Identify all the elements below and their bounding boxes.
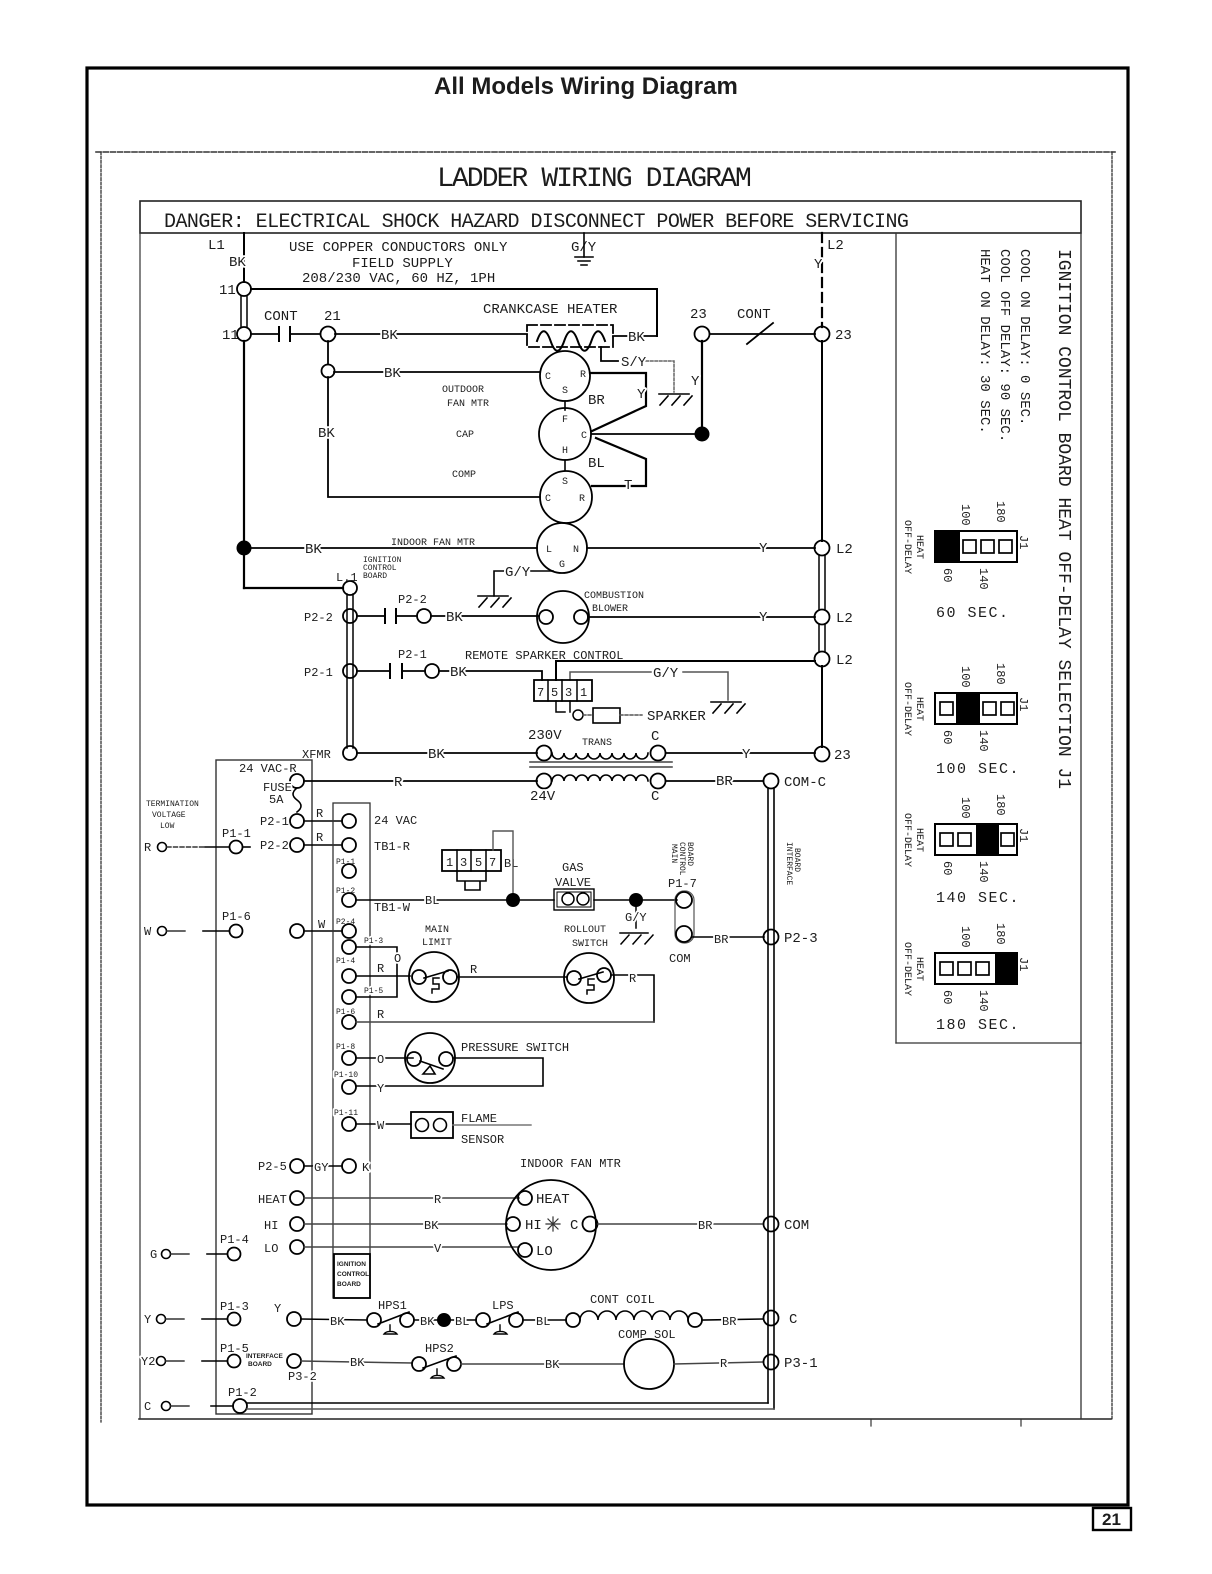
DIP switch S2 white positions [940,702,953,715]
svg-text:P1-1: P1-1 [222,827,251,841]
svg-text:BK: BK [381,328,398,344]
junction dot indoor fan [237,541,252,556]
connector plug body [457,871,486,890]
svg-text:60: 60 [940,568,954,582]
wire sparker pin5 to L2 [556,661,815,680]
svg-text:Y: Y [637,387,646,403]
svg-text:100: 100 [958,504,972,526]
svg-text:OFF-DELAY: OFF-DELAY [901,813,912,867]
svg-text:PRESSURE SWITCH: PRESSURE SWITCH [461,1041,569,1055]
wire TB1-W BL to gas valve [356,899,554,901]
inner frame bottom [139,1418,1112,1420]
svg-text:24 VAC: 24 VAC [374,814,417,828]
svg-text:5: 5 [551,686,558,700]
flame sensor [411,1112,453,1138]
svg-text:O: O [377,1053,384,1067]
right panel bottom edge [896,1042,1081,1044]
svg-text:LOW: LOW [160,822,175,831]
svg-text:BL: BL [425,894,439,908]
svg-text:140 SEC.: 140 SEC. [936,890,1020,907]
wire BK to dot [414,1319,437,1321]
svg-text:140: 140 [976,730,990,752]
svg-text:21: 21 [324,309,341,325]
svg-text:All Models Wiring Diagram: All Models Wiring Diagram [434,73,738,100]
svg-text:COOL ON DELAY: 0 SEC.: COOL ON DELAY: 0 SEC. [1016,249,1032,425]
svg-text:P1-11: P1-11 [334,1109,358,1118]
wire BK to transformer [357,752,537,754]
svg-text:CAP: CAP [456,430,474,441]
node P3-2 [287,1354,301,1368]
svg-text:W: W [377,1119,385,1133]
svg-text:23: 23 [834,748,851,764]
svg-text:MAIN: MAIN [669,844,678,863]
ICB strip double line [346,594,348,748]
svg-text:HEAT: HEAT [913,957,924,981]
ground top [575,257,593,265]
svg-text:BL: BL [504,857,518,871]
svg-text:R: R [629,972,636,986]
wire BK to indoor fan [251,547,537,549]
svg-text:COM-C: COM-C [784,775,826,791]
wire 21 drop [327,341,329,364]
wire R to motor HEAT [304,1197,519,1199]
svg-text:K: K [362,1161,370,1175]
svg-text:INTERFACE: INTERFACE [246,1353,284,1360]
wire 7 jumper over to BL line [493,831,513,893]
svg-text:P1-7: P1-7 [668,877,697,891]
svg-text:BL: BL [536,1315,550,1329]
svg-text:H: H [562,446,568,457]
page number box [1093,1508,1131,1530]
svg-text:P3-2: P3-2 [288,1370,317,1384]
ground fan G [478,596,511,607]
node COM [764,1217,779,1232]
svg-text:21: 21 [1102,1510,1121,1529]
wire BK to HPS1 [301,1319,366,1320]
svg-text:HEAT: HEAT [913,535,924,559]
svg-text:HEAT ON DELAY: 30 SEC.: HEAT ON DELAY: 30 SEC. [976,249,992,434]
DIP switch S3 white positions [940,833,953,846]
node TB1-R [342,838,356,852]
svg-text:P2-2: P2-2 [398,593,427,607]
node P2-3 [764,930,779,945]
svg-text:J1: J1 [1016,957,1030,971]
svg-text:C: C [570,1218,578,1234]
svg-text:W: W [144,925,152,939]
svg-text:COOL OFF DELAY: 90 SEC.: COOL OFF DELAY: 90 SEC. [996,249,1012,442]
svg-text:24V: 24V [530,789,556,805]
wire BL to LPS [451,1319,476,1321]
node P3-1 [764,1355,779,1370]
connector 1357 [442,850,501,871]
DIP switch S2 rocker position 100 (black) [956,693,980,724]
svg-text:5: 5 [475,856,482,870]
svg-text:BLOWER: BLOWER [592,604,628,615]
svg-text:BK: BK [446,610,463,626]
svg-text:V: V [434,1242,442,1256]
junction dot G/Y [629,893,643,907]
svg-text:7: 7 [537,686,544,700]
svg-text:BL: BL [588,456,605,472]
svg-text:60: 60 [940,990,954,1004]
DIP switch S1 white positions [963,540,976,553]
svg-text:CRANKCASE HEATER: CRANKCASE HEATER [483,302,618,318]
svg-text:TRANS: TRANS [582,738,612,749]
svg-text:BOARD: BOARD [337,1281,361,1288]
wire Y from node 23 left [701,341,703,428]
svg-text:208/230 VAC, 60 HZ, 1PH: 208/230 VAC, 60 HZ, 1PH [302,271,495,287]
svg-text:FAN MTR: FAN MTR [447,399,489,410]
svg-text:HEAT: HEAT [913,828,924,852]
DIP switch S2 body [935,693,1017,724]
ignition control board black box label [334,1254,370,1298]
wire top bus [251,289,657,336]
wire heater out BK [613,335,657,337]
svg-text:BOARD: BOARD [363,572,387,581]
common rail double line [767,788,769,1403]
svg-text:OFF-DELAY: OFF-DELAY [901,682,912,736]
junction dot C [695,427,710,442]
left rail L1 down [243,341,245,588]
svg-text:GY: GY [314,1161,328,1175]
svg-text:BK: BK [318,426,335,442]
svg-text:P1-5: P1-5 [364,987,383,996]
node TB1 P1-5 [342,990,356,1004]
svg-text:CONT COIL: CONT COIL [590,1293,655,1307]
svg-text:LIMIT: LIMIT [422,938,452,949]
svg-text:BOARD: BOARD [792,848,801,872]
wire V to motor LO [304,1246,519,1248]
svg-text:140: 140 [976,990,990,1012]
wire main limit to rollout [457,976,566,978]
svg-text:P2-1: P2-1 [304,666,333,680]
danger warning box [140,201,1081,233]
svg-text:23: 23 [835,328,852,344]
svg-text:Y: Y [691,374,700,390]
svg-text:IGNITION: IGNITION [337,1261,366,1268]
svg-text:OFF-DELAY: OFF-DELAY [901,520,912,574]
svg-text:P1-2: P1-2 [228,1386,257,1400]
svg-text:COM: COM [784,1218,809,1234]
junction dot HPS1/LPS [437,1313,451,1327]
wire BK to sparker plug [439,671,542,680]
wire heater case S/Y to ground [601,347,618,361]
node L2 row2 [815,610,830,625]
wire blower to L2 [588,616,815,618]
TB1 strip box [333,803,370,1298]
svg-text:FIELD SUPPLY: FIELD SUPPLY [352,256,453,272]
wire G/Y pin3 to ground [570,672,728,700]
svg-text:LPS: LPS [492,1299,514,1313]
svg-text:R: R [316,807,323,821]
svg-text:140: 140 [976,861,990,883]
flame rod wire [453,1124,531,1126]
wire COM BR to P2-3 [692,936,764,938]
wire BK to outdoor fan C [334,371,539,373]
svg-text:MAIN: MAIN [425,925,449,936]
svg-text:BK: BK [450,665,467,681]
svg-text:P2-1: P2-1 [260,815,289,829]
wire P1-11 W to flame sensor [356,1123,411,1125]
svg-text:60: 60 [940,861,954,875]
combustion blower [537,591,589,643]
bracket P1-3/P1-5 jumper [356,947,397,997]
wire fuse to 24V [304,780,537,782]
svg-text:R: R [377,1008,384,1022]
svg-text:SWITCH: SWITCH [572,939,608,950]
svg-text:BK: BK [545,1358,560,1372]
svg-text:L2: L2 [827,238,844,254]
wire L2 drop dashed [821,233,823,327]
svg-text:HI: HI [525,1218,542,1234]
indoor fan motor speeds [506,1180,596,1270]
svg-text:ROLLOUT: ROLLOUT [564,925,606,936]
svg-text:INDOOR FAN MTR: INDOOR FAN MTR [391,538,475,549]
node P2-2b [417,609,431,623]
svg-text:L2: L2 [836,611,853,627]
svg-text:G/Y: G/Y [625,911,647,925]
svg-text:11: 11 [222,328,239,344]
svg-text:TB1-R: TB1-R [374,840,410,854]
wire cap H to comp S [564,460,566,470]
svg-text:DANGER: ELECTRICAL SHOCK HAZAR: DANGER: ELECTRICAL SHOCK HAZARD DISCONNE… [164,211,908,234]
svg-text:BK: BK [420,1315,435,1329]
svg-text:L2: L2 [836,542,853,558]
wire BK down to comp [328,377,540,497]
svg-text:BR: BR [714,933,728,947]
svg-text:SPARKER: SPARKER [647,709,706,725]
svg-text:BK: BK [330,1315,345,1329]
wire cap C to Y junction dot [592,433,702,435]
svg-text:180: 180 [993,663,1007,685]
svg-text:HI: HI [264,1219,278,1233]
svg-text:CONT: CONT [737,307,771,323]
svg-text:P2-5: P2-5 [258,1160,287,1174]
DIP switch S1 rocker position 60 (black) [935,531,960,562]
svg-text:G: G [150,1248,157,1262]
fuse terminal [290,774,304,788]
svg-text:C: C [789,1312,797,1328]
wire secondary to COM-C [666,780,763,782]
ladder / panel divider [895,233,897,1043]
svg-text:BK: BK [628,330,645,346]
capacitor CAP [539,408,591,460]
svg-text:G/Y: G/Y [653,666,679,682]
svg-text:S: S [562,386,568,397]
svg-text:GAS: GAS [562,861,584,875]
svg-text:BK: BK [305,542,322,558]
wire fan G to ground [494,571,553,596]
svg-text:HPS2: HPS2 [425,1342,454,1356]
svg-text:BR: BR [588,393,605,409]
wire P2-1 to TB1 [304,820,342,822]
svg-text:COMP: COMP [452,470,476,481]
svg-text:P1-10: P1-10 [334,1071,358,1080]
wire R to P3-1 [674,1362,763,1364]
svg-text:Y: Y [742,747,751,763]
wire BK to motor HI [304,1223,507,1225]
svg-text:CONTROL: CONTROL [337,1271,369,1278]
wire gas valve to P1-7 [594,899,677,901]
svg-text:OFF-DELAY: OFF-DELAY [901,942,912,996]
svg-text:100: 100 [958,666,972,688]
svg-text:TERMINATION: TERMINATION [146,800,199,809]
ground sparker [711,702,745,713]
wire P1-8 O to pressure switch [356,1057,413,1059]
svg-text:180: 180 [993,501,1007,523]
svg-text:HEAT: HEAT [913,697,924,721]
svg-text:FLAME: FLAME [461,1112,497,1126]
svg-text:COM: COM [669,952,691,966]
rail L2 row3 to 23 [821,666,823,747]
svg-text:C: C [144,1400,151,1414]
svg-text:BK: BK [229,255,246,271]
wire P1-4 R to main limit [356,975,410,977]
inner dotted frame left [100,152,102,1422]
transformer primary [537,746,552,761]
svg-text:USE COPPER CONDUCTORS ONLY: USE COPPER CONDUCTORS ONLY [289,240,508,256]
wire BK to HPS2 [301,1361,412,1363]
dashed separator line [96,151,1115,153]
interface board box [216,760,312,1414]
svg-text:R: R [720,1357,727,1371]
svg-text:5A: 5A [269,793,284,807]
node L2 row1 [815,541,830,556]
node TB1 24VAC [342,814,356,828]
svg-text:L: L [546,545,552,556]
fold tick marks [870,1419,872,1426]
svg-text:R: R [579,494,585,505]
svg-text:C: C [651,789,659,805]
svg-text:P2-2: P2-2 [304,611,333,625]
svg-text:Y: Y [274,1302,281,1316]
svg-text:BK: BK [384,366,401,382]
svg-text:L2: L2 [836,653,853,669]
svg-text:CONT: CONT [264,309,298,325]
node C rail [764,1311,779,1326]
svg-text:60: 60 [940,730,954,744]
svg-text:LADDER WIRING DIAGRAM: LADDER WIRING DIAGRAM [437,164,751,195]
ground S/Y [659,394,692,405]
svg-text:Y: Y [377,1082,384,1096]
indoor fan motor L/N/G [537,523,587,573]
wire motor C BR to COM [598,1223,762,1225]
svg-text:C: C [581,431,587,442]
svg-text:BK: BK [428,747,445,763]
svg-text:J1: J1 [1016,828,1030,842]
outer page frame [87,68,1128,1505]
node 23 transformer [815,747,830,762]
rail L2 row1-row2 double [818,555,820,610]
svg-text:S/Y: S/Y [621,355,647,371]
svg-text:G: G [559,560,565,571]
node junction 21a [322,365,335,378]
wire pressure switch loop to P1-10 [356,1058,543,1086]
svg-text:P1-4: P1-4 [220,1233,249,1247]
junction dot BL [506,893,520,907]
node L2 row3 [815,652,830,667]
outdoor fan motor [540,351,590,401]
svg-text:BOARD: BOARD [248,1361,272,1368]
svg-text:T: T [624,478,632,494]
rail L2 top to row1 [821,341,823,541]
wire cap C to comp R [592,438,646,486]
svg-text:180 SEC.: 180 SEC. [936,1017,1020,1034]
node 23 right [815,327,830,342]
svg-text:R: R [316,831,323,845]
svg-text:180: 180 [993,794,1007,816]
svg-text:Y2: Y2 [141,1355,155,1369]
svg-text:R: R [144,841,151,855]
wire BR to C node [702,1319,763,1320]
svg-text:J1: J1 [1016,697,1030,711]
wire BK to comp sol [461,1363,624,1365]
wire BL to cont coil [523,1319,566,1321]
wire rollout down to P1-6 line [611,975,654,1022]
fuse symbol [293,788,301,812]
DIP switch S3 rocker position 140 (black) [976,824,999,855]
svg-text:VALVE: VALVE [555,876,591,890]
svg-text:140: 140 [976,568,990,590]
svg-text:LO: LO [264,1242,278,1256]
svg-text:W: W [318,918,326,932]
svg-text:1: 1 [446,856,453,870]
svg-text:60 SEC.: 60 SEC. [936,605,1010,622]
right panel right edge [1080,233,1082,1419]
wire P1-6 long R [356,1021,654,1023]
svg-text:LO: LO [536,1244,553,1260]
svg-text:R: R [434,1193,441,1207]
node P2-1b [425,664,439,678]
svg-text:P2-3: P2-3 [784,931,818,947]
svg-text:HPS1: HPS1 [378,1299,407,1313]
svg-text:P1-3: P1-3 [364,937,383,946]
svg-text:BL: BL [455,1315,469,1329]
svg-text:23: 23 [690,307,707,323]
svg-text:Y: Y [144,1313,151,1327]
DIP switch S4 white positions [940,962,953,975]
svg-text:P2-2: P2-2 [260,839,289,853]
svg-text:180: 180 [993,923,1007,945]
svg-text:R: R [470,963,477,977]
wire double link 11-11 [240,296,242,327]
DIP switch S4 rocker position 180 (black) [995,953,1017,984]
wire sparker output [556,701,570,712]
svg-text:OUTDOOR: OUTDOOR [442,385,484,396]
bottom return double wire [247,1402,768,1404]
svg-text:R: R [377,962,384,976]
svg-text:CONTROL: CONTROL [677,842,686,876]
svg-text:BR: BR [698,1219,712,1233]
node ICB L1 [343,581,357,595]
svg-text:R: R [580,370,586,381]
wire left rail to ICB L1 [244,587,343,589]
svg-text:J1: J1 [1016,535,1030,549]
transformer secondary [537,774,552,789]
svg-text:BR: BR [722,1315,736,1329]
svg-text:R: R [394,775,403,791]
wire G/Y drop [583,233,585,257]
svg-text:3: 3 [565,686,572,700]
svg-text:Y: Y [759,610,768,626]
svg-text:C: C [651,729,659,745]
svg-text:P1-6: P1-6 [222,910,251,924]
svg-text:INTERFACE: INTERFACE [784,842,793,885]
DIP switch S1 body [935,531,1017,562]
ground gas valve [620,933,653,944]
svg-text:24 VAC-R: 24 VAC-R [239,762,297,776]
svg-text:P1-4: P1-4 [336,957,355,966]
